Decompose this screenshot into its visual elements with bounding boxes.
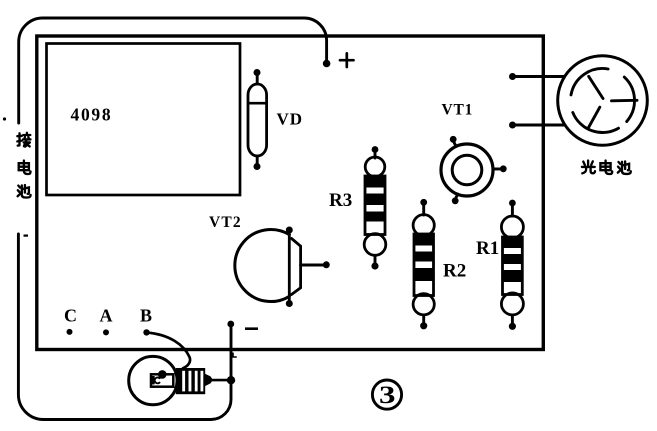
- lamp inner bead: [158, 370, 167, 379]
- transistor VT2 right lead: [301, 264, 324, 267]
- IC 4098 box: [47, 44, 241, 196]
- photocell wires: [513, 77, 565, 126]
- transistor VT2 chord lead: [288, 230, 291, 304]
- photocell body: [558, 56, 648, 146]
- diode VD band: [248, 102, 266, 105]
- node + terminal dot: [323, 60, 331, 68]
- stray dot far left: [3, 117, 6, 120]
- svg-text:3: 3: [379, 382, 396, 409]
- svg-text:R1: R1: [476, 238, 499, 259]
- resistor R3: [364, 146, 386, 270]
- label 接电池 (vertical): [17, 133, 30, 147]
- label minus: [245, 327, 258, 330]
- svg-text:VT2: VT2: [209, 214, 242, 231]
- label 光电池: [582, 161, 595, 174]
- svg-text:4098: 4098: [71, 105, 113, 125]
- junction lamp-wire dot: [227, 376, 235, 384]
- diode VD leads: [256, 75, 259, 164]
- transistor VT2 body: [235, 229, 289, 301]
- lamp tip contact: [205, 374, 213, 386]
- resistor R1: [501, 200, 523, 330]
- lamp lead wire: [213, 379, 228, 382]
- wire battery negative: left lower vertical, bottom loop, up to - pad: [18, 234, 231, 420]
- lamp inner contact tab: [151, 376, 154, 384]
- svg-text:A: A: [100, 306, 113, 326]
- lamp inner stem box: [151, 374, 173, 386]
- lamp screw base: [176, 368, 205, 394]
- wire B to lamp: [147, 333, 191, 369]
- svg-text:VT1: VT1: [442, 102, 474, 119]
- transistor VT1: [441, 144, 493, 196]
- stray dash left: [24, 235, 29, 237]
- svg-text:B: B: [140, 306, 152, 326]
- resistor R2: [413, 199, 434, 329]
- wire battery positive: left top loop to + pad: [19, 18, 327, 123]
- figure number 3: [372, 380, 401, 409]
- photocell blades: [571, 69, 637, 133]
- svg-text:VD: VD: [277, 110, 304, 129]
- stray mark near wire crossing: [233, 353, 236, 357]
- lamp bulb glass: [129, 356, 177, 404]
- svg-text:R3: R3: [329, 190, 352, 211]
- node - terminal dot: [227, 321, 234, 328]
- svg-text:C: C: [64, 306, 77, 326]
- diode VD body: [248, 84, 267, 156]
- svg-text:R2: R2: [443, 261, 466, 282]
- label +: [340, 53, 354, 67]
- PCB board outline: [37, 36, 544, 350]
